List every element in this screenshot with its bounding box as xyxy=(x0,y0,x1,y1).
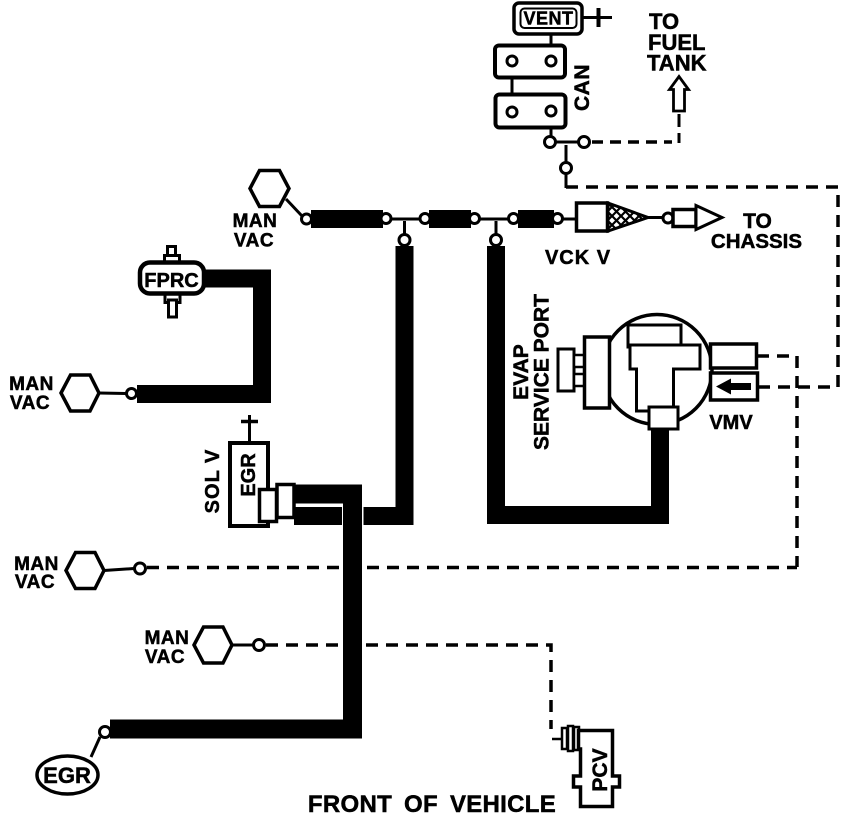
svg-text:VENT: VENT xyxy=(523,9,573,29)
svg-text:VAC: VAC xyxy=(15,572,55,593)
svg-text:CHASSIS: CHASSIS xyxy=(711,230,802,253)
svg-text:PCV: PCV xyxy=(589,748,612,791)
svg-text:CAN: CAN xyxy=(571,64,594,111)
svg-text:MAN: MAN xyxy=(145,628,190,649)
svg-text:VCK V: VCK V xyxy=(545,247,611,269)
svg-text:FRONT OF VEHICLE: FRONT OF VEHICLE xyxy=(308,791,556,817)
svg-text:EGR: EGR xyxy=(238,453,260,497)
svg-text:VMV: VMV xyxy=(709,412,753,434)
svg-text:TANK: TANK xyxy=(647,51,707,76)
svg-text:VAC: VAC xyxy=(234,231,274,252)
svg-text:FPRC: FPRC xyxy=(144,270,198,292)
svg-text:MAN: MAN xyxy=(233,211,278,232)
svg-text:MAN: MAN xyxy=(9,374,54,395)
svg-text:SERVICE PORT: SERVICE PORT xyxy=(531,294,554,450)
svg-text:EGR: EGR xyxy=(43,763,91,788)
svg-text:SOL V: SOL V xyxy=(202,449,224,514)
svg-text:VAC: VAC xyxy=(10,393,50,414)
svg-text:VAC: VAC xyxy=(145,647,185,668)
